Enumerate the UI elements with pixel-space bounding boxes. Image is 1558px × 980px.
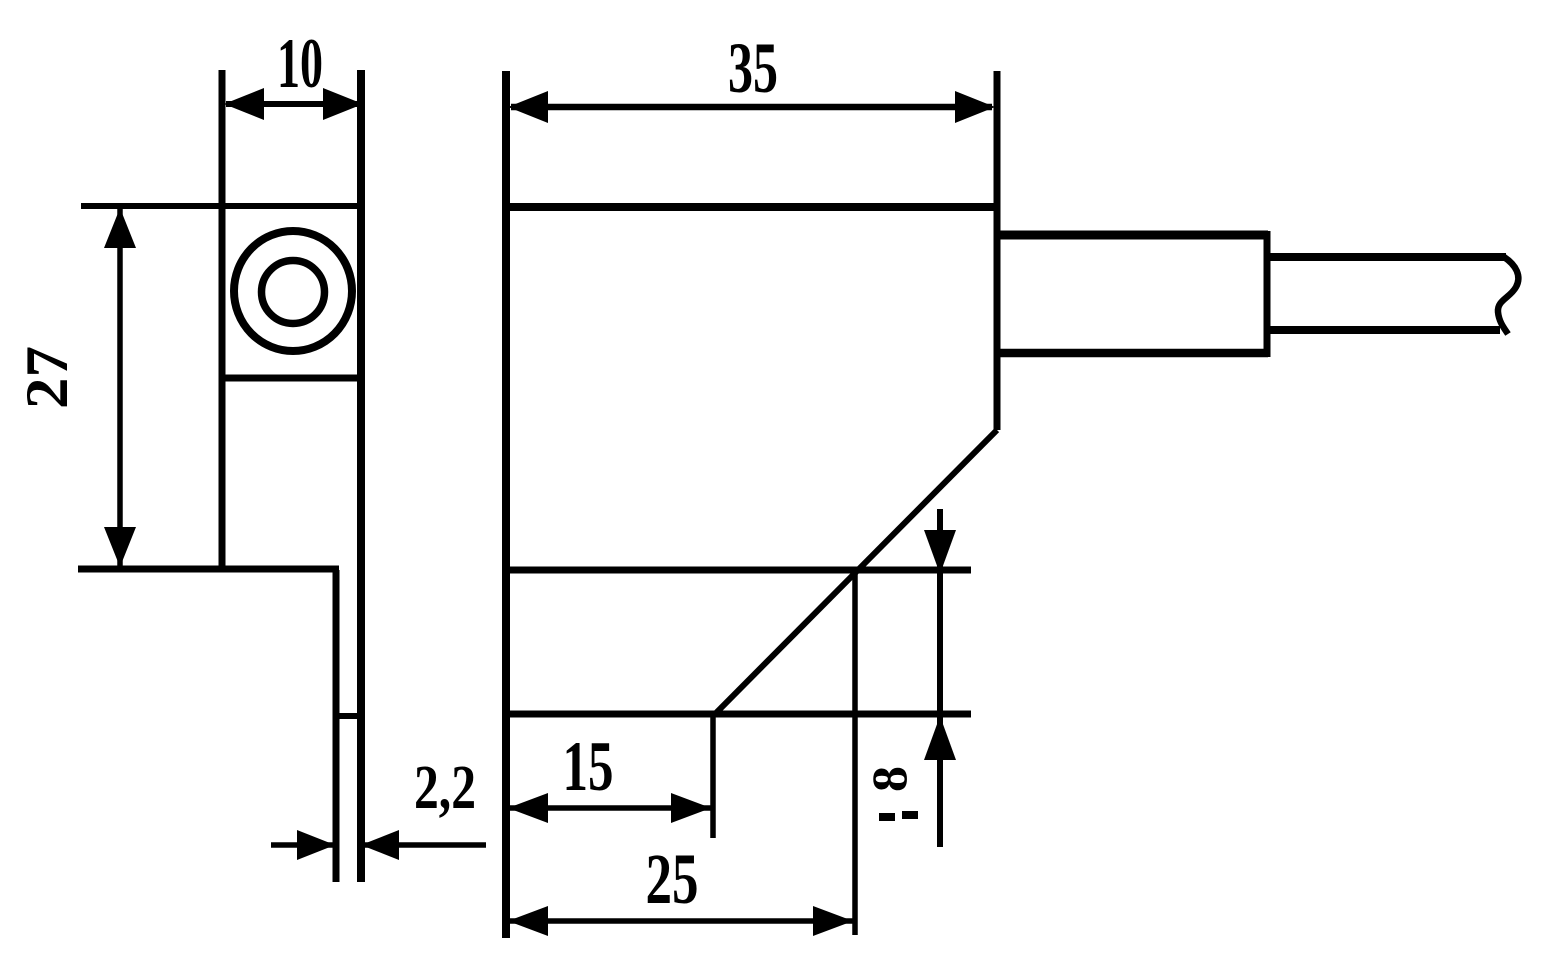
svg-text:10: 10 (277, 25, 323, 103)
svg-text:8: 8 (861, 766, 917, 792)
svg-text:15: 15 (563, 728, 614, 806)
svg-text:27: 27 (14, 346, 80, 409)
svg-text:35: 35 (728, 28, 778, 108)
svg-text:25: 25 (646, 839, 699, 919)
svg-text:2,2: 2,2 (414, 754, 476, 822)
